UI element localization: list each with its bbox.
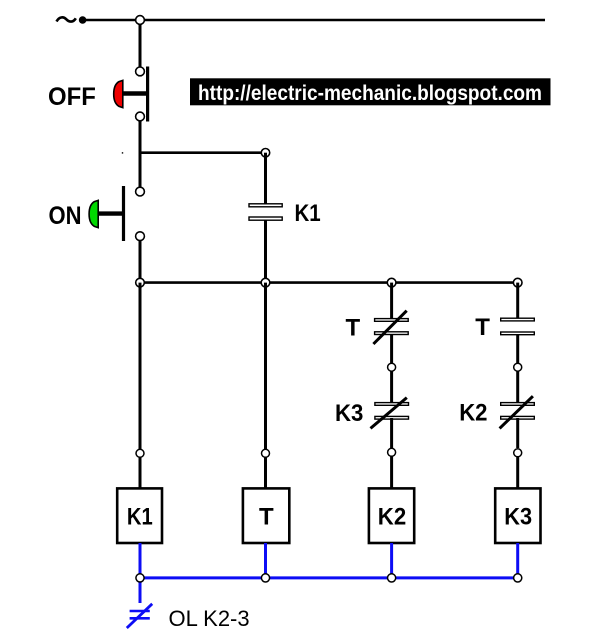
coil K1 top plate bbox=[249, 204, 282, 207]
OFF actuator stem bbox=[121, 91, 147, 95]
node above K3 box bbox=[514, 449, 522, 457]
contactor coil box K2 bbox=[369, 488, 414, 543]
wire: bus to timer NC contact bbox=[390, 283, 393, 319]
K3 NC contact slash bbox=[371, 398, 407, 429]
K3 NC contact bottom plate bbox=[375, 416, 409, 419]
blue wire: T box to neutral bus bbox=[264, 543, 267, 578]
wire: node to T box bbox=[264, 457, 267, 489]
wire: bus to timer NO contact bbox=[516, 283, 519, 319]
wire: tee to K1 coil branch bbox=[140, 151, 266, 154]
node above K2 box bbox=[388, 448, 396, 456]
stray dot artifact bbox=[122, 152, 123, 153]
overload contact OL bottom plate bbox=[130, 617, 150, 620]
contactor coil box K3 bbox=[495, 488, 540, 543]
wire: K2 contact to node bbox=[516, 418, 519, 448]
wire: mid node to K2 contact bbox=[516, 371, 519, 403]
OFF top terminal bbox=[136, 67, 145, 76]
mid node left branch bbox=[388, 363, 396, 371]
ON green mushroom head bbox=[89, 200, 98, 227]
K2 NC contact top plate bbox=[501, 403, 535, 406]
wire: K3 contact to node bbox=[390, 418, 393, 448]
wire: node to K1 box bbox=[139, 457, 142, 489]
coil K1 bottom plate bbox=[249, 217, 282, 220]
K2 NC contact slash bbox=[500, 396, 533, 428]
ON actuator stem bbox=[98, 211, 124, 215]
node at coil branch top bbox=[261, 149, 269, 157]
svg-text:K2: K2 bbox=[459, 399, 487, 426]
blue wire: K1 box to neutral bus bbox=[139, 543, 142, 578]
OFF bottom terminal bbox=[136, 112, 145, 121]
horizontal bus wire bbox=[140, 281, 518, 284]
svg-text:ON: ON bbox=[49, 202, 82, 230]
ON pushbutton NO contact bar bbox=[122, 186, 125, 241]
ON top terminal bbox=[136, 187, 145, 196]
wire: rail to OFF button bbox=[139, 20, 142, 68]
wire: mid node to K3 contact bbox=[390, 371, 393, 403]
banner bbox=[190, 78, 551, 105]
blue wire: K3 box to neutral bus bbox=[516, 543, 519, 578]
wire: OFF to tee junction bbox=[139, 121, 142, 154]
svg-text:http://electric-mechanic.blogs: http://electric-mechanic.blogspot.com bbox=[198, 81, 542, 105]
svg-text:T: T bbox=[259, 504, 274, 531]
svg-text:T: T bbox=[475, 314, 490, 341]
svg-text:K3: K3 bbox=[504, 504, 532, 531]
neutral node at K2 bbox=[388, 574, 396, 582]
K3 NC contact top plate bbox=[375, 403, 409, 406]
bus node at K2 branch bbox=[387, 278, 396, 287]
node above K1 box bbox=[136, 449, 144, 457]
timer coil box T bbox=[243, 488, 289, 543]
wire: bus down to K1 box bbox=[139, 283, 142, 449]
node above T box bbox=[262, 449, 270, 457]
blue wire: bus to overload contact bbox=[139, 578, 142, 603]
wire: K1 coil to bus bbox=[264, 220, 267, 283]
wire: T contact to mid node bbox=[390, 335, 393, 363]
timer NO contact T bottom plate bbox=[501, 332, 535, 335]
bus node at K1 branch bbox=[136, 278, 145, 287]
AC source tilde symbol bbox=[57, 17, 76, 21]
overload contact OL top plate bbox=[130, 610, 150, 613]
svg-text:K2: K2 bbox=[378, 504, 406, 531]
wire: node to K2 box bbox=[390, 456, 393, 489]
svg-text:OFF: OFF bbox=[48, 83, 96, 111]
blue neutral bus wire bbox=[140, 576, 518, 579]
wire: coil branch down to K1 coil bbox=[264, 153, 267, 204]
overload contact slash bbox=[127, 604, 152, 628]
OFF red mushroom head bbox=[114, 80, 123, 107]
svg-text:T: T bbox=[346, 314, 361, 341]
svg-text:K1: K1 bbox=[295, 200, 321, 227]
mid node right branch bbox=[514, 363, 522, 371]
svg-text:K1: K1 bbox=[127, 504, 153, 531]
bus node at K3 branch bbox=[513, 278, 522, 287]
timer NO contact T top plate bbox=[501, 318, 535, 321]
timer NC contact T bottom plate bbox=[375, 332, 409, 335]
wire: bus down to T box bbox=[264, 283, 267, 449]
svg-text:K3: K3 bbox=[335, 400, 363, 427]
svg-text:OL K2-3: OL K2-3 bbox=[169, 606, 250, 630]
neutral node at K3 bbox=[514, 574, 522, 582]
wire: node to K3 box bbox=[516, 456, 519, 489]
node on rail bbox=[136, 16, 145, 25]
neutral node at T bbox=[261, 574, 269, 582]
top supply rail wire bbox=[85, 19, 545, 21]
timer NC contact slash bbox=[373, 311, 406, 344]
bus node at T branch bbox=[261, 278, 270, 287]
OFF pushbutton NC contact bar bbox=[146, 67, 149, 122]
contactor coil box K1 bbox=[117, 488, 162, 543]
K2 NC contact bottom plate bbox=[501, 416, 535, 419]
blue wire: K2 box to neutral bus bbox=[390, 543, 393, 578]
timer NC contact T top plate bbox=[375, 319, 409, 322]
wire: tee to ON button bbox=[139, 153, 142, 188]
neutral node at K1 bbox=[136, 574, 144, 582]
wire: T contact to mid node right bbox=[516, 335, 519, 363]
source terminal dot bbox=[79, 16, 87, 24]
ON bottom terminal bbox=[136, 232, 145, 241]
wire: ON to bus bbox=[139, 241, 142, 284]
